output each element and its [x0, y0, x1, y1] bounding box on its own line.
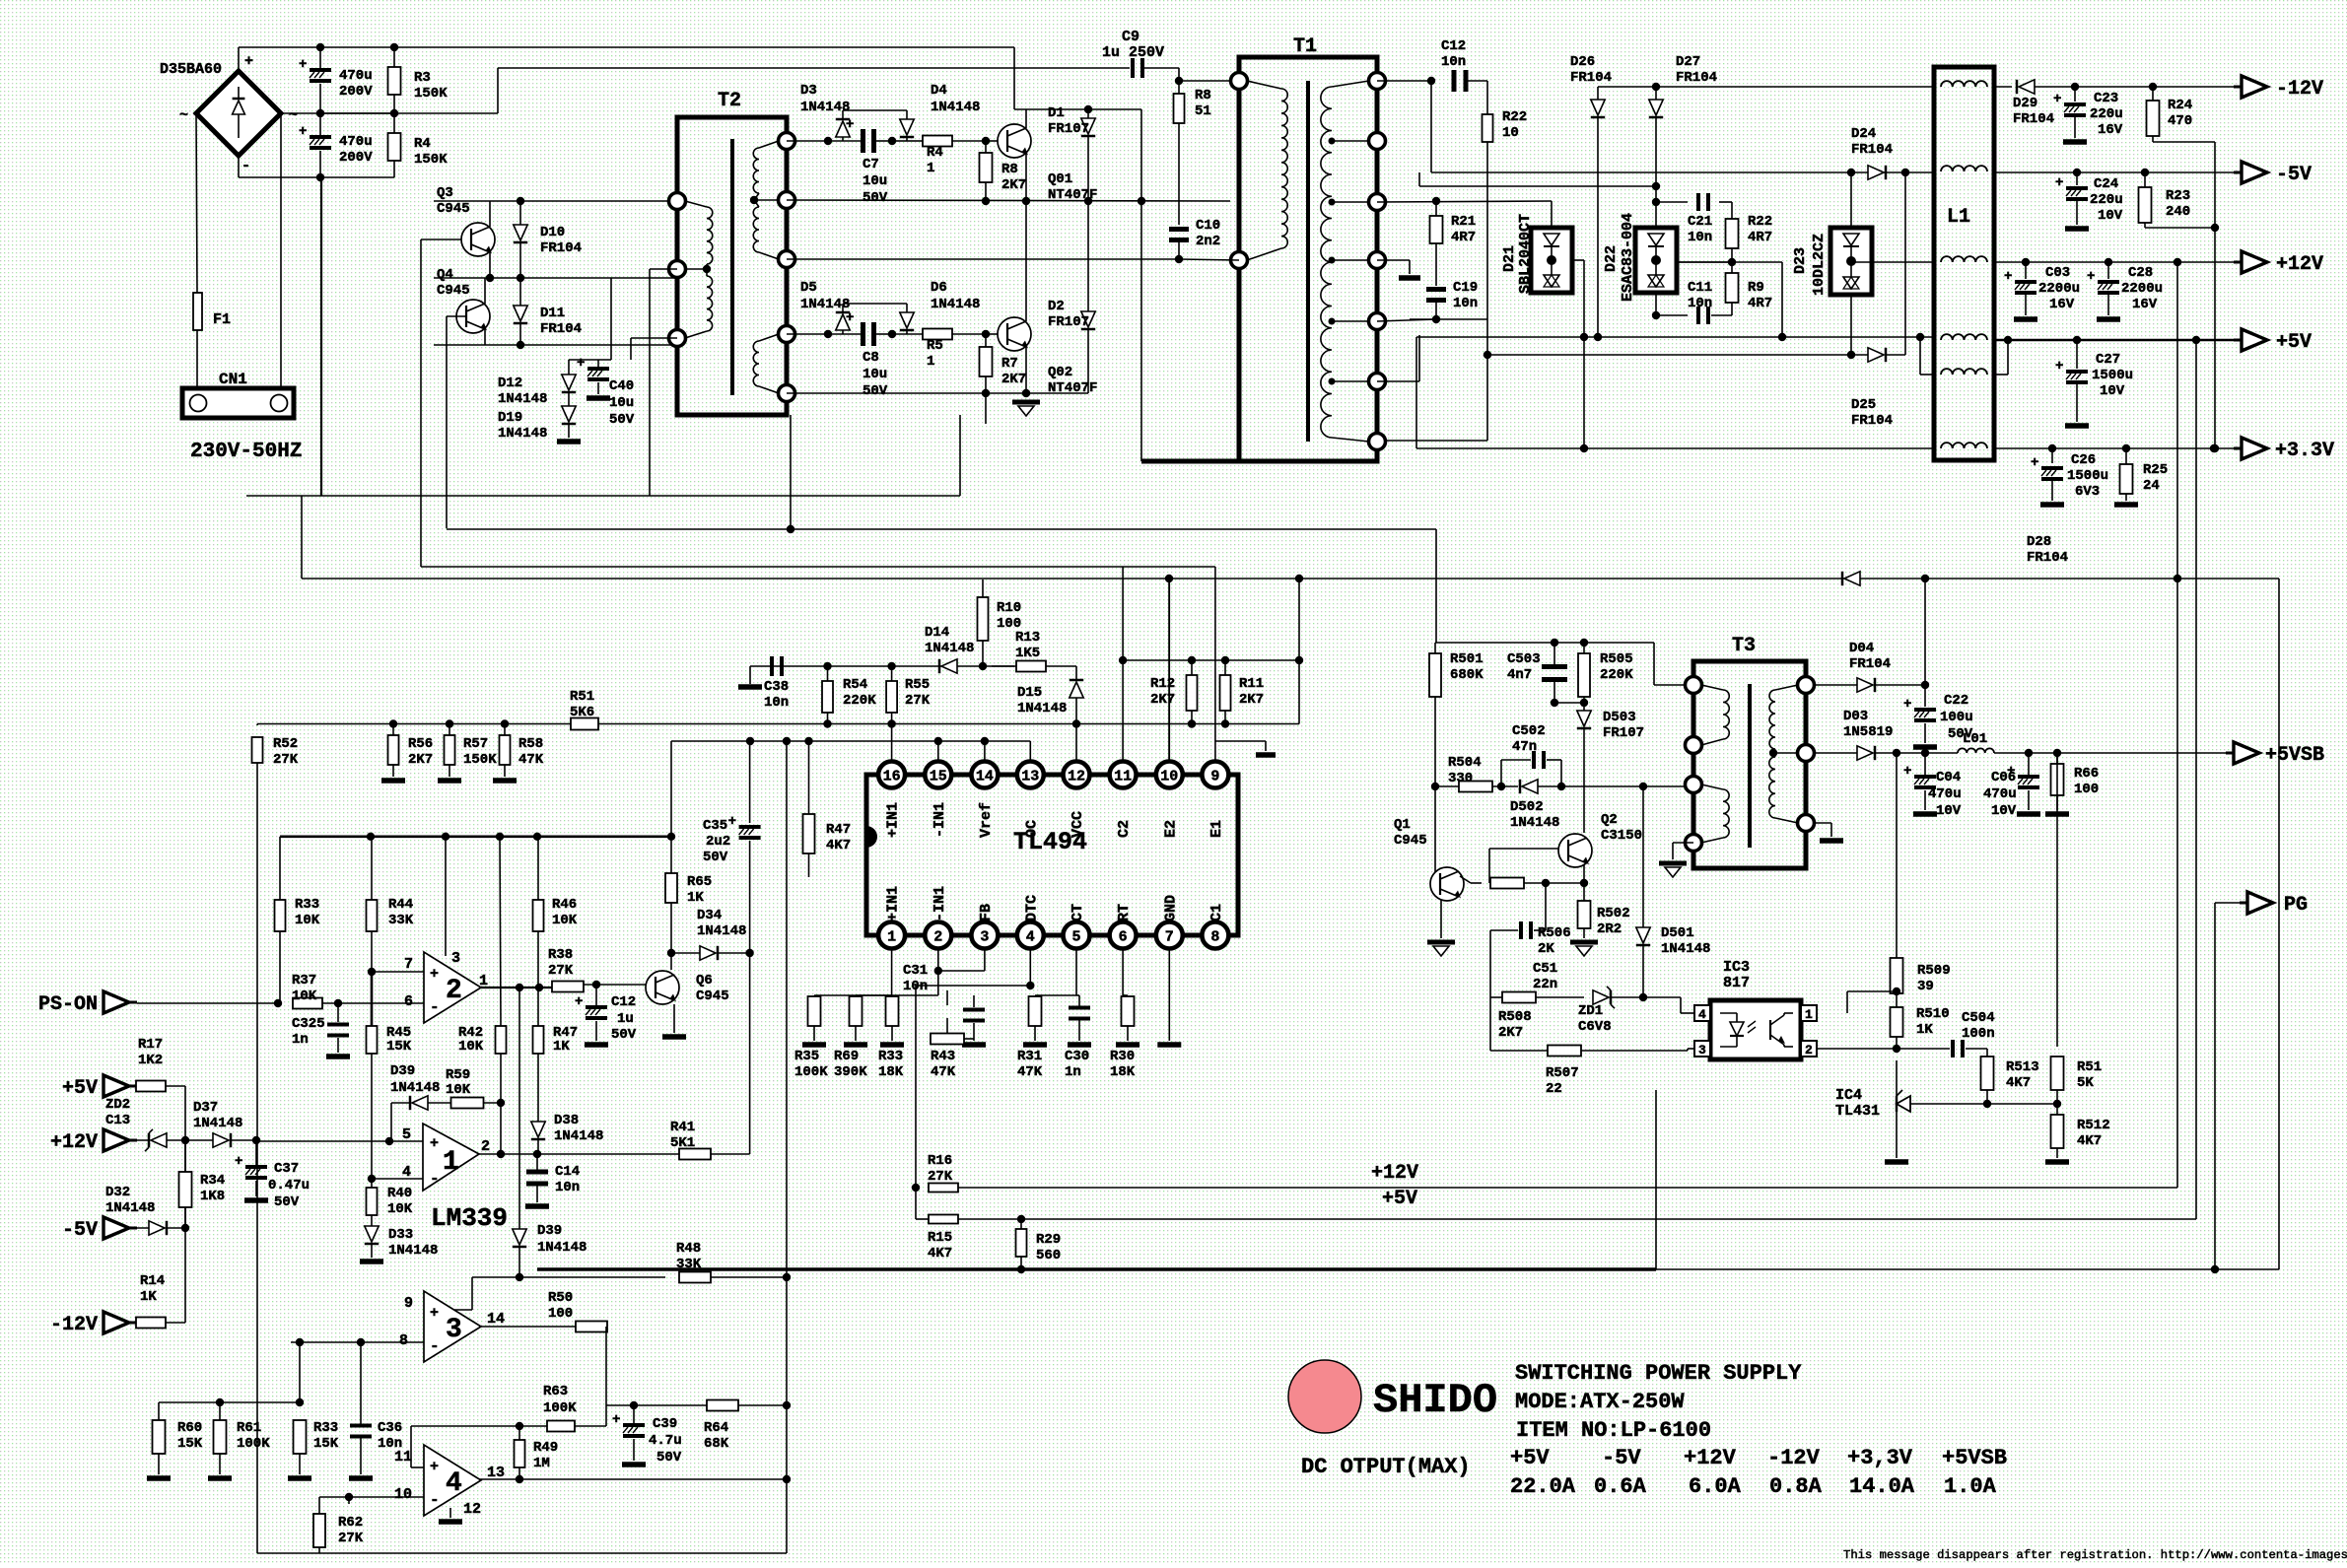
resistor R510 1K: [1896, 991, 1898, 1007]
resistor R47 4K7: [803, 814, 815, 853]
svg-text:D10: D10: [540, 225, 565, 240]
svg-text:27K: 27K: [338, 1531, 364, 1546]
svg-text:D32: D32: [105, 1185, 130, 1200]
resistor R508 2K7: [1502, 992, 1536, 1003]
L1 winding -5V: [1941, 166, 1987, 171]
svg-text:47K: 47K: [931, 1064, 956, 1080]
node R509/R510: [1893, 988, 1900, 995]
wire Q02 emitter rail: [1025, 347, 1027, 393]
wire D23 center to +12: [1851, 261, 1934, 263]
svg-text:2K7: 2K7: [408, 752, 433, 768]
svg-text:MODE:ATX-250W: MODE:ATX-250W: [1515, 1390, 1685, 1414]
svg-text:5K: 5K: [2077, 1075, 2094, 1091]
svg-text:Q02: Q02: [1048, 365, 1072, 380]
svg-text:T3: T3: [1732, 635, 1756, 657]
svg-text:10K: 10K: [458, 1039, 484, 1055]
svg-text:150K: 150K: [414, 152, 448, 168]
transistor Q6 C945: [646, 971, 679, 1004]
wire C19 bottom rail: [1410, 318, 1436, 320]
svg-text:ZD2: ZD2: [105, 1097, 130, 1113]
PG output: [2215, 902, 2247, 904]
svg-text:+: +: [244, 53, 253, 70]
svg-text:C325: C325: [292, 1016, 325, 1032]
resistor R23 240: [2144, 172, 2146, 187]
svg-text:6.0A: 6.0A: [1689, 1474, 1742, 1499]
svg-text:D19: D19: [498, 410, 522, 426]
svg-text:10: 10: [394, 1486, 412, 1503]
svg-text:4: 4: [446, 1468, 462, 1499]
svg-text:FR107: FR107: [1048, 314, 1089, 330]
svg-text:R61: R61: [237, 1420, 261, 1436]
svg-text:C6V8: C6V8: [1578, 1019, 1612, 1035]
svg-text:FB: FB: [978, 904, 995, 921]
svg-text:1K8: 1K8: [200, 1189, 225, 1204]
svg-text:1N4148: 1N4148: [388, 1243, 438, 1259]
svg-text:D39: D39: [537, 1223, 562, 1239]
wire R23 bottom: [2145, 227, 2215, 229]
svg-text:C945: C945: [437, 283, 470, 299]
svg-text:R21: R21: [1451, 214, 1476, 230]
svg-text:50V: 50V: [274, 1194, 300, 1210]
svg-text:D28: D28: [2027, 534, 2051, 550]
wire Q2 base line: [1489, 848, 1558, 850]
T2 primary winding upper: [707, 207, 713, 264]
T1 primary winding: [1281, 89, 1287, 248]
svg-text:1N4148: 1N4148: [800, 100, 850, 115]
wire +5 return into L1 left: [1919, 337, 1921, 375]
svg-text:D14: D14: [925, 625, 949, 641]
svg-text:D6: D6: [931, 280, 947, 296]
svg-text:Vref: Vref: [978, 802, 995, 838]
diode D39b 1N4148: [513, 1229, 526, 1245]
svg-text:R47: R47: [826, 822, 851, 838]
resistor R51 5K6: [571, 718, 598, 730]
svg-text:1: 1: [927, 161, 934, 176]
T1 secondary winding: [1321, 87, 1332, 438]
svg-text:R22: R22: [1748, 214, 1772, 230]
svg-text:D3: D3: [800, 83, 817, 99]
svg-text:22n: 22n: [1533, 977, 1557, 992]
svg-text:12: 12: [463, 1501, 481, 1518]
svg-text:15K: 15K: [313, 1436, 339, 1452]
diode D34 1N4148: [700, 946, 716, 960]
wire GND pin7 drop: [1168, 995, 1170, 1041]
svg-text:50V: 50V: [656, 1450, 682, 1466]
svg-text:C39: C39: [653, 1416, 677, 1432]
svg-text:10K: 10K: [387, 1201, 413, 1217]
capacitor C12 10n: [1452, 70, 1457, 92]
wire Q3 base: [421, 239, 461, 240]
svg-text:FR104: FR104: [1676, 70, 1717, 86]
svg-text:5K6: 5K6: [570, 705, 594, 720]
wire primary ground drop: [320, 177, 322, 496]
svg-text:18K: 18K: [1110, 1064, 1136, 1080]
resistor R13 1K5: [992, 665, 1016, 667]
resistor R47 1K: [533, 1026, 544, 1054]
capacitor C21 10n: [1656, 201, 1688, 203]
resistor R60 15K: [153, 1420, 166, 1454]
svg-text:10: 10: [1160, 769, 1178, 785]
svg-text:R29: R29: [1036, 1232, 1061, 1248]
ground D19: [557, 439, 581, 444]
svg-text:51: 51: [1195, 103, 1211, 119]
svg-text:2: 2: [933, 929, 942, 946]
svg-text:-5V: -5V: [1602, 1446, 1641, 1470]
wire C503/R505 junction: [1554, 702, 1584, 704]
diode D39 1N4148 fb: [412, 1096, 428, 1110]
bus +12V: [958, 1187, 2177, 1189]
node R4 out: [982, 137, 990, 145]
svg-text:D2: D2: [1048, 299, 1065, 314]
wire + bus drop to Q01 collector: [1013, 47, 1015, 109]
svg-text:R12: R12: [1150, 676, 1175, 692]
svg-text:C37: C37: [274, 1161, 299, 1177]
capacitor C503 4n7: [1542, 664, 1567, 669]
svg-text:1N4148: 1N4148: [498, 426, 547, 442]
diode D27 FR104: [1655, 87, 1657, 100]
svg-text:D21: D21: [1501, 245, 1518, 272]
svg-text:C10: C10: [1196, 218, 1220, 234]
resistor R52 27K: [256, 724, 258, 726]
wire C12 node down: [1430, 81, 1432, 172]
svg-text:47K: 47K: [518, 752, 544, 768]
svg-text:FR104: FR104: [540, 321, 582, 337]
svg-text:IC3: IC3: [1723, 959, 1750, 976]
svg-text:4K7: 4K7: [928, 1246, 952, 1261]
wire -5V rail from D27: [1652, 182, 1660, 190]
capacitor C14 10n: [526, 1170, 548, 1175]
resistor R66 100: [2053, 749, 2061, 757]
svg-text:1N4148: 1N4148: [931, 297, 980, 312]
svg-text:50V: 50V: [863, 190, 888, 206]
svg-text:FR104: FR104: [1851, 142, 1893, 158]
wire tap rail 2: [1377, 319, 1436, 321]
svg-text:LM339: LM339: [431, 1203, 508, 1233]
resistor R24 470: [2152, 87, 2154, 101]
svg-text:2: 2: [1805, 1043, 1813, 1057]
svg-text:R35: R35: [794, 1049, 819, 1064]
svg-text:16V: 16V: [2132, 297, 2158, 312]
resistor R30 18K: [1123, 994, 1128, 996]
resistor R5 1: [923, 329, 952, 340]
wire TL431 ref: [1910, 1103, 1987, 1105]
input +12V: [104, 1129, 129, 1151]
svg-text:4K7: 4K7: [826, 838, 851, 853]
input -5V: [104, 1217, 129, 1239]
svg-text:C504: C504: [1962, 1010, 1995, 1026]
svg-text:1M: 1M: [533, 1456, 550, 1471]
svg-text:10u: 10u: [863, 173, 887, 189]
svg-text:10DL2CZ: 10DL2CZ: [1811, 234, 1828, 296]
node D3 anode: [824, 137, 832, 145]
resistor R21 4R7: [1435, 201, 1437, 216]
svg-text:SHIDO: SHIDO: [1373, 1377, 1497, 1424]
svg-text:C24: C24: [2094, 176, 2118, 192]
resistor R43 47K: [946, 1018, 948, 1034]
svg-text:D503: D503: [1603, 710, 1636, 725]
svg-text:R507: R507: [1546, 1065, 1579, 1081]
svg-text:R14: R14: [140, 1273, 165, 1289]
svg-text:R504: R504: [1448, 755, 1482, 771]
svg-text:R64: R64: [704, 1420, 728, 1436]
svg-text:R15: R15: [928, 1230, 952, 1246]
diode D10 FR104: [519, 201, 521, 225]
wire comp2 out drop chain: [518, 988, 520, 1229]
svg-text:330: 330: [1448, 771, 1473, 786]
svg-text:18K: 18K: [878, 1064, 904, 1080]
capacitor C7 10u 50V: [861, 129, 865, 153]
wire comp3 out to C39 line: [605, 1327, 607, 1405]
svg-text:R58: R58: [518, 736, 543, 752]
svg-text:12: 12: [1068, 769, 1085, 785]
wire pin16 stub: [891, 724, 893, 762]
svg-text:817: 817: [1723, 975, 1750, 991]
svg-text:C04: C04: [1936, 770, 1961, 785]
svg-text:220u: 220u: [2090, 106, 2123, 122]
wire Q1 emitter ground: [1440, 900, 1442, 938]
svg-text:1K2: 1K2: [138, 1053, 163, 1068]
svg-text:+: +: [1903, 697, 1911, 713]
svg-text:D24: D24: [1851, 126, 1876, 142]
svg-text:Q6: Q6: [696, 973, 713, 989]
input -12V: [104, 1312, 129, 1333]
svg-text:R65: R65: [687, 874, 712, 890]
wire Q2 emitter: [1583, 865, 1585, 902]
op-amp comparator 3: [424, 1291, 481, 1362]
svg-text:1N4148: 1N4148: [105, 1200, 155, 1216]
wire D3/D4 branch top: [787, 140, 828, 142]
svg-text:R50: R50: [548, 1290, 573, 1306]
T2 primary winding lower: [707, 276, 713, 331]
svg-text:2200u: 2200u: [2038, 281, 2080, 297]
svg-text:R52: R52: [273, 736, 298, 752]
diode D14 1N4148: [941, 659, 957, 673]
svg-text:C7: C7: [863, 157, 879, 172]
svg-text:D29: D29: [2013, 96, 2037, 111]
svg-text:1N4148: 1N4148: [1661, 941, 1710, 957]
svg-text:+IN1: +IN1: [885, 886, 902, 921]
svg-text:390K: 390K: [834, 1064, 867, 1080]
capacitor C27 1500u 10V: [2076, 340, 2078, 369]
resistor R69 390K: [856, 994, 938, 996]
svg-text:220u: 220u: [2090, 192, 2123, 208]
svg-text:R33: R33: [878, 1049, 903, 1064]
svg-text:-12V: -12V: [50, 1314, 98, 1336]
wire D26 bottom rail: [1594, 333, 1602, 341]
diode D15 1N4148: [1070, 682, 1083, 698]
svg-text:R48: R48: [676, 1241, 701, 1257]
wire top + bus: [239, 46, 1014, 48]
svg-text:-12V: -12V: [2276, 78, 2323, 101]
svg-text:R57: R57: [463, 736, 488, 752]
node minus rail: [316, 173, 324, 181]
svg-text:C945: C945: [1394, 833, 1427, 849]
svg-text:4: 4: [1026, 929, 1035, 946]
svg-text:R63: R63: [543, 1384, 568, 1399]
svg-text:FR104: FR104: [1851, 413, 1893, 429]
svg-text:1N4148: 1N4148: [697, 923, 746, 939]
svg-text:D1: D1: [1048, 105, 1065, 121]
diode D26 FR104: [1597, 87, 1599, 100]
svg-text:C30: C30: [1065, 1049, 1089, 1064]
wire +5 return stub: [2007, 340, 2009, 375]
resistor R38 27K: [552, 982, 584, 992]
diode D4 1N4148: [900, 119, 914, 135]
wire gnd bus rise: [1655, 1090, 1657, 1269]
resistor R33 10K: [279, 837, 281, 900]
svg-text:D501: D501: [1661, 925, 1694, 941]
resistor R57 150K: [449, 724, 450, 736]
svg-text:+12V: +12V: [1684, 1446, 1737, 1470]
wire opto pin1 to node: [1846, 991, 1848, 1013]
svg-text:10n: 10n: [1453, 296, 1478, 311]
resistor R62 27K: [313, 1514, 325, 1547]
svg-text:4: 4: [1698, 1007, 1706, 1022]
svg-text:R69: R69: [834, 1049, 859, 1064]
svg-text:+: +: [299, 57, 307, 73]
resistor R55 27K: [886, 681, 897, 713]
svg-text:8: 8: [399, 1332, 408, 1349]
diode D19 1N4148: [562, 406, 576, 422]
op-amp comparator 1: [423, 1124, 479, 1191]
output +5V: [2234, 339, 2242, 342]
wire mid bus L4 / D28 line: [302, 578, 2279, 579]
resistor R61 100K: [214, 1420, 227, 1454]
resistor R504 330: [1459, 782, 1492, 792]
svg-text:R25: R25: [2143, 462, 2168, 478]
wire -5V output: [1994, 171, 2242, 173]
svg-text:14.0A: 14.0A: [1849, 1474, 1915, 1499]
svg-text:+: +: [2053, 92, 2061, 107]
diode D37 1N4148: [213, 1133, 229, 1147]
wire Q1 base: [1434, 786, 1436, 872]
svg-text:22: 22: [1546, 1081, 1562, 1097]
svg-text:R55: R55: [905, 677, 930, 693]
svg-text:CN1: CN1: [219, 371, 247, 388]
zener ZD2 C13: [151, 1133, 167, 1147]
transistor Q02 NT407F: [998, 317, 1031, 351]
resistor R65 1K: [665, 873, 677, 903]
diode D502 1N4148: [1522, 780, 1538, 793]
wire pin7 GND down: [1168, 949, 1170, 995]
wire Q6 emitter ground: [673, 1004, 675, 1033]
svg-text:1: 1: [887, 929, 896, 946]
svg-text:560: 560: [1036, 1248, 1061, 1263]
resistor R14 1K: [136, 1318, 166, 1329]
svg-text:FR104: FR104: [2013, 111, 2054, 127]
svg-text:SBL2040CT: SBL2040CT: [1517, 214, 1534, 294]
node T2 primary tap: [703, 265, 711, 273]
svg-text:10V: 10V: [2100, 383, 2125, 399]
svg-text:15K: 15K: [386, 1039, 412, 1055]
svg-text:4K7: 4K7: [2077, 1133, 2102, 1149]
svg-text:R505: R505: [1600, 651, 1633, 667]
svg-text:10K: 10K: [552, 913, 578, 928]
resistor R8 51: [1178, 81, 1180, 95]
diode D2 FR107: [1087, 201, 1089, 311]
svg-text:470u: 470u: [339, 68, 373, 84]
svg-text:R54: R54: [843, 677, 867, 693]
svg-text:D22: D22: [1603, 245, 1620, 272]
svg-text:C503: C503: [1507, 651, 1541, 667]
wire comp4 + input: [411, 1466, 424, 1468]
ground Q02 emitter: [1012, 400, 1040, 405]
svg-text:-5V: -5V: [2276, 164, 2312, 186]
svg-text:+: +: [430, 1459, 439, 1475]
wire DTC riser to +12 bus: [915, 986, 917, 1215]
L1 winding -12V: [1941, 81, 1987, 87]
wire AC line 1 with fuse: [196, 113, 197, 293]
svg-text:7: 7: [1165, 929, 1174, 946]
capacitor C504 100n: [1951, 1040, 1955, 1057]
svg-text:Q4: Q4: [437, 267, 453, 283]
svg-text:10K: 10K: [446, 1082, 471, 1098]
svg-text:D37: D37: [193, 1100, 218, 1116]
svg-text:+: +: [2055, 175, 2063, 191]
resistor R44 33K: [371, 837, 373, 900]
sense bus thick: [280, 835, 671, 838]
diode D03 1N5819: [1814, 752, 1857, 754]
svg-text:C31: C31: [903, 963, 928, 979]
svg-text:100K: 100K: [794, 1064, 828, 1080]
resistor R31 47K: [1035, 994, 1076, 996]
svg-text:680K: 680K: [1450, 667, 1484, 683]
svg-text:D15: D15: [1017, 685, 1042, 701]
opto transistor: [1769, 1020, 1771, 1040]
svg-text:+: +: [430, 966, 439, 983]
svg-text:50V: 50V: [609, 412, 635, 428]
capacitor C26 1500u 6V3: [2051, 448, 2053, 463]
op-amp comparator 2: [424, 952, 481, 1023]
svg-text:E1: E1: [1208, 820, 1225, 838]
svg-text:D35BA60: D35BA60: [160, 61, 222, 78]
svg-text:C12: C12: [611, 994, 636, 1010]
svg-text:Q2: Q2: [1601, 812, 1618, 828]
wire pin5 CT down: [1075, 949, 1077, 995]
svg-text:D03: D03: [1843, 709, 1868, 724]
svg-text:R31: R31: [1017, 1049, 1042, 1064]
svg-text:R8: R8: [1001, 162, 1018, 177]
capacitor C? 470u 200V upper: [319, 47, 321, 69]
inductor L1 box: [1934, 67, 1994, 460]
capacitor C35 2u2 50V: [749, 741, 751, 823]
svg-text:+12V: +12V: [1371, 1162, 1418, 1185]
diode D32 1N4148: [149, 1221, 165, 1235]
wire D28 to C22 node: [1924, 577, 1926, 685]
node R54 top: [823, 662, 831, 670]
svg-text:50V: 50V: [703, 850, 728, 865]
op-amp comparator 4: [424, 1445, 481, 1516]
wire comp1 out: [479, 1153, 538, 1155]
dual diode D23 10DL2CZ: [1850, 172, 1852, 229]
wire comp1 inputs: [256, 1140, 423, 1142]
svg-text:+: +: [2004, 269, 2012, 285]
resistor R59 10K: [451, 1098, 484, 1109]
capacitor C36 10n: [350, 1424, 372, 1428]
svg-text:27K: 27K: [548, 963, 574, 979]
capacitor C24 220u 10V: [2076, 172, 2078, 185]
wire R42 column: [500, 837, 501, 1026]
diode D28 FR104: [1844, 572, 1860, 585]
svg-text:D34: D34: [697, 908, 722, 923]
svg-text:1K: 1K: [553, 1039, 570, 1055]
svg-text:9: 9: [1210, 769, 1219, 785]
svg-text:C13: C13: [105, 1113, 130, 1128]
resistor R25 24: [2125, 448, 2127, 465]
capacitor C22 100u 50V: [1924, 685, 1926, 707]
logo SHIDO circle: [1288, 1360, 1361, 1433]
svg-text:4K7: 4K7: [2006, 1075, 2031, 1091]
